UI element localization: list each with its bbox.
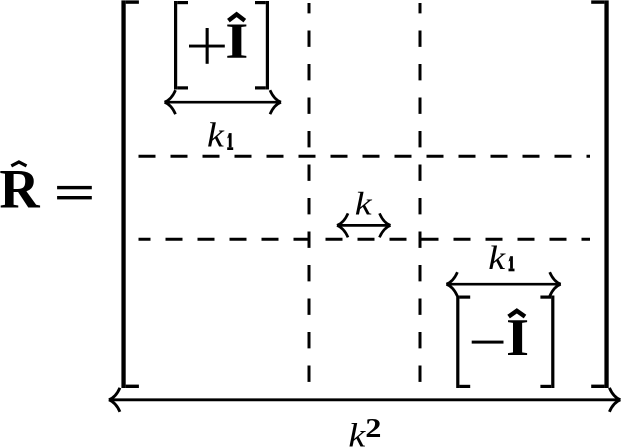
label k1 top [207, 116, 233, 154]
submatrix -I right bracket [540, 296, 554, 389]
svg-text:k: k [488, 239, 506, 276]
svg-text:2: 2 [365, 414, 381, 444]
vertical partition dashed line 1 [308, 3, 311, 388]
arrow k1 bottom [446, 272, 560, 296]
identity I (bottom block) [506, 309, 529, 367]
svg-text:I: I [506, 309, 529, 367]
hat over bottom I [509, 311, 525, 317]
horizontal partition dashed line 2 [139, 238, 591, 241]
plus sign [189, 28, 225, 64]
submatrix -I left bracket [456, 296, 470, 389]
big matrix left bracket [121, 0, 138, 388]
submatrix +I left bracket [174, 1, 188, 90]
label k1 bottom [488, 239, 514, 276]
vertical partition dashed line 2 [419, 3, 422, 388]
label k^2 [348, 414, 381, 447]
submatrix +I right bracket [255, 1, 269, 90]
equals sign [57, 186, 92, 200]
arrow k middle [337, 213, 391, 237]
arrow k1 top [165, 90, 282, 114]
label R-hat [0, 158, 40, 220]
minus sign [472, 341, 504, 344]
hat over top I [228, 14, 244, 20]
big matrix right bracket [591, 0, 609, 388]
horizontal partition dashed line 1 [139, 155, 591, 158]
bottom arrow k^2 [109, 388, 621, 412]
svg-text:R: R [0, 158, 40, 220]
svg-text:k: k [207, 116, 225, 154]
svg-text:k: k [348, 416, 366, 447]
svg-text:k: k [355, 186, 373, 222]
identity I (top block) [225, 13, 248, 69]
label k middle [355, 186, 373, 222]
